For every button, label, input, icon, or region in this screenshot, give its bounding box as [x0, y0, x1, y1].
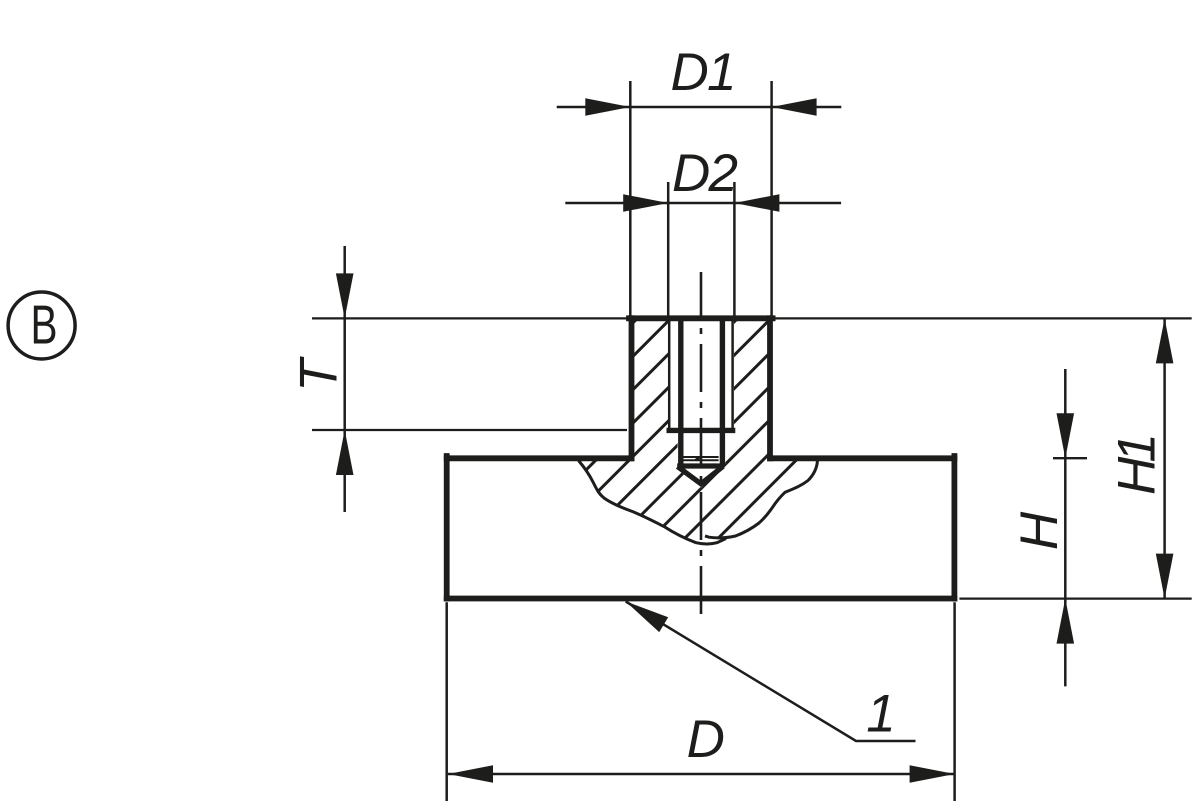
base pot: bottom edge [447, 596, 955, 602]
base pot: top line left part [447, 455, 632, 461]
drill cone shoulder line [677, 463, 724, 468]
D dimension [448, 773, 955, 776]
drill cone V [678, 467, 723, 484]
base pot: left edge [444, 456, 450, 599]
svg-text:H: H [1010, 511, 1069, 550]
base pot: top line right part [770, 455, 954, 461]
H1 dimension [1163, 318, 1166, 598]
white trim outside the flare squiggles (right/bottom) [705, 461, 990, 661]
svg-text:B: B [30, 293, 57, 355]
part outlines [447, 318, 955, 598]
svg-text:H1: H1 [1108, 433, 1167, 495]
D2 dimension [565, 202, 841, 205]
svg-text:D1: D1 [670, 43, 736, 102]
thread major diameter thin lines [668, 321, 671, 430]
svg-text:D: D [687, 710, 725, 769]
boss top [629, 315, 773, 321]
tapped hole [667, 321, 736, 484]
center line [700, 272, 703, 624]
thread end line [667, 428, 736, 433]
boss right wall [767, 318, 773, 458]
T dimension [343, 246, 346, 512]
base pot: right edge [952, 456, 958, 599]
H dimension [1064, 369, 1067, 686]
hatching of bushing section [406, 300, 1023, 550]
leader line for item 1 [626, 602, 916, 742]
freehand flare squiggles [579, 461, 818, 544]
svg-text:1: 1 [866, 684, 896, 743]
dimensions (thin lines + arrows) [312, 81, 1192, 801]
D1 dimension [557, 106, 842, 109]
view label B circle [8, 292, 75, 359]
boss left wall [629, 318, 635, 458]
hole minor walls [678, 321, 683, 466]
thin lines at hole bottom [682, 456, 718, 458]
svg-text:T: T [290, 356, 349, 392]
white trim outside the flare squiggles (left/bottom) [420, 461, 726, 661]
svg-text:D2: D2 [672, 144, 738, 203]
